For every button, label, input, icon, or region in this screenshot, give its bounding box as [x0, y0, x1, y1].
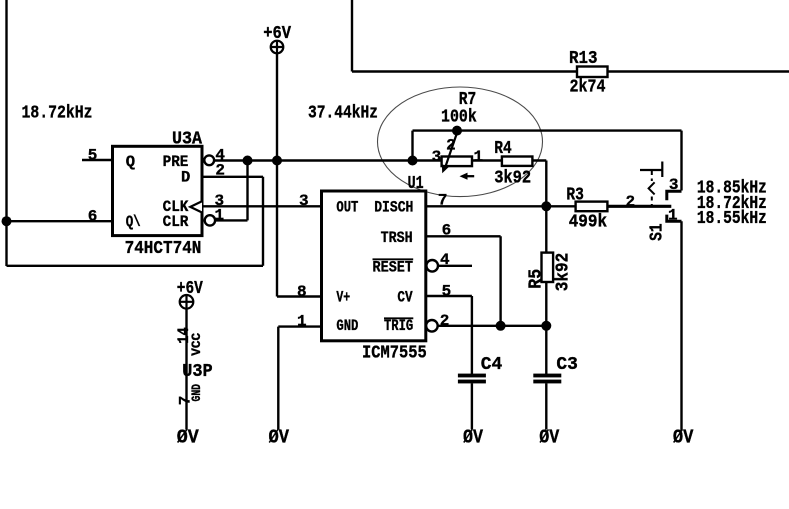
svg-text:CLR: CLR: [163, 213, 189, 231]
svg-text:R13: R13: [569, 49, 598, 69]
svg-text:OUT: OUT: [336, 199, 358, 217]
svg-text:1: 1: [668, 207, 678, 225]
svg-text:TRSH: TRSH: [381, 229, 413, 247]
svg-text:8: 8: [297, 283, 307, 301]
svg-text:100k: 100k: [441, 108, 477, 128]
svg-text:S1: S1: [648, 223, 668, 241]
svg-text:2: 2: [215, 162, 225, 180]
svg-text:+6V: +6V: [263, 24, 291, 44]
svg-text:3: 3: [432, 148, 442, 166]
svg-text:3: 3: [669, 176, 679, 194]
svg-text:U3A: U3A: [172, 130, 202, 150]
svg-text:7: 7: [438, 192, 448, 210]
svg-text:GND: GND: [189, 384, 204, 402]
svg-text:Q: Q: [126, 153, 135, 171]
svg-text:R3: R3: [566, 185, 584, 205]
svg-text:ØV: ØV: [539, 427, 559, 449]
svg-text:R5: R5: [527, 269, 547, 289]
svg-text:ICM7555: ICM7555: [362, 343, 427, 363]
svg-text:6: 6: [442, 222, 452, 240]
svg-text:ØV: ØV: [673, 427, 694, 449]
svg-text:C3: C3: [556, 355, 578, 375]
svg-text:+6V: +6V: [177, 279, 203, 299]
svg-text:TRIG: TRIG: [384, 317, 413, 335]
svg-text:Q\: Q\: [126, 213, 141, 231]
svg-text:ØV: ØV: [177, 427, 199, 449]
svg-text:18.55kHz: 18.55kHz: [697, 209, 767, 229]
svg-text:CV: CV: [397, 289, 413, 307]
svg-text:3: 3: [299, 192, 309, 210]
svg-text:2: 2: [446, 137, 456, 155]
svg-text:3k92: 3k92: [494, 168, 531, 188]
svg-text:2k74: 2k74: [570, 78, 606, 98]
svg-text:RESET: RESET: [373, 259, 414, 277]
svg-text:499k: 499k: [569, 213, 608, 233]
svg-text:1: 1: [297, 312, 307, 330]
svg-text:GND: GND: [336, 317, 358, 335]
svg-text:2: 2: [626, 193, 636, 211]
svg-text:5: 5: [88, 147, 98, 165]
svg-text:R4: R4: [494, 139, 512, 159]
svg-text:D: D: [181, 169, 190, 187]
svg-text:VCC: VCC: [189, 333, 204, 356]
svg-text:U1: U1: [408, 174, 424, 194]
svg-text:18.72kHz: 18.72kHz: [22, 104, 93, 124]
svg-text:DISCH: DISCH: [374, 199, 413, 217]
svg-text:4: 4: [440, 251, 450, 269]
svg-text:U3P: U3P: [182, 362, 213, 382]
svg-text:37.44kHz: 37.44kHz: [308, 104, 378, 124]
svg-text:5: 5: [442, 283, 452, 301]
svg-text:ØV: ØV: [463, 427, 483, 449]
svg-text:2: 2: [440, 312, 450, 330]
svg-text:ØV: ØV: [269, 427, 290, 449]
svg-text:C4: C4: [481, 355, 503, 375]
svg-text:1: 1: [474, 148, 484, 166]
svg-text:V+: V+: [336, 289, 350, 307]
svg-text:3k92: 3k92: [553, 253, 573, 292]
svg-text:6: 6: [88, 208, 98, 226]
svg-text:1: 1: [215, 207, 225, 225]
svg-text:74HCT74N: 74HCT74N: [125, 239, 202, 259]
